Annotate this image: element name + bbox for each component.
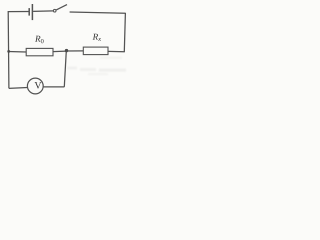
resistor Rx	[83, 47, 108, 55]
wire riser up	[64, 51, 66, 87]
battery plate long	[31, 4, 33, 20]
left wire	[7, 11, 10, 88]
wire bottom-left	[9, 87, 28, 90]
node junction R0-Rx	[65, 49, 68, 52]
wire battery to switch	[33, 10, 53, 13]
wire Rx to junction	[66, 50, 83, 52]
wire top-left	[8, 11, 29, 13]
bleed-through smudge	[67, 57, 126, 76]
resistor R0	[26, 48, 53, 55]
wire R0 to left junction	[8, 51, 26, 54]
voltmeter V1	[27, 78, 43, 94]
wire voltmeter to riser	[43, 86, 64, 88]
wire switch to right	[70, 12, 126, 13]
right wire	[124, 13, 125, 52]
switch pivot	[53, 9, 56, 12]
node junction left	[7, 50, 10, 53]
wire right to Rx	[108, 50, 125, 52]
label Rx	[93, 34, 99, 40]
label R0	[35, 36, 41, 42]
switch blade	[56, 5, 67, 11]
wire junction to R0	[53, 50, 66, 53]
battery plate short	[28, 8, 30, 16]
label V	[35, 82, 42, 89]
